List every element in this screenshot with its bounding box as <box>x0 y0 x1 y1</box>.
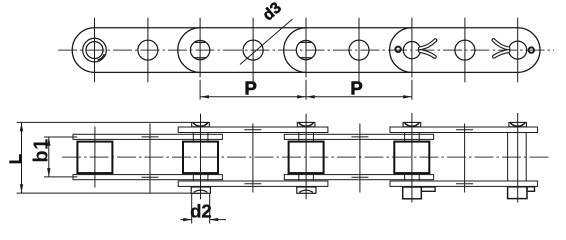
pin joint at pin7 (plan, cotter type) <box>403 113 435 203</box>
roller 1 (plan) <box>77 142 112 174</box>
center mark at position 8 <box>456 124 473 193</box>
pin circle pin9 <box>509 41 527 59</box>
b1 dimension line <box>48 137 50 177</box>
d2 dimension line with outside arrows <box>181 219 227 221</box>
pin joint at pin5 (plan) <box>297 114 316 200</box>
crosshair+extension pin7 <box>411 18 413 100</box>
outer link 1 bottom plate <box>178 181 328 186</box>
L dimension line <box>21 122 23 193</box>
bushing inner circle pin1 <box>86 42 103 59</box>
pin9 body <box>508 133 527 181</box>
pin3 bottom head dome arc <box>194 190 208 192</box>
pin7 bottom head <box>403 187 422 199</box>
pin joint at pin9 (plan, cotter type) <box>508 113 535 203</box>
crosshair pin4 <box>252 18 254 83</box>
crosshair pin9 <box>517 18 519 83</box>
pin5 bottom head <box>297 187 316 193</box>
hole circle pin4 <box>243 40 263 60</box>
roller 4 (plan) <box>394 142 429 174</box>
outer link 2 top plate <box>390 127 538 133</box>
plate end arc at pin7 <box>390 28 412 73</box>
svg-text:P: P <box>245 77 257 98</box>
L top extension line <box>17 121 192 123</box>
pin9 cotter stub <box>527 187 535 192</box>
L bottom extension line <box>17 192 191 194</box>
d2 right extension line <box>209 193 211 223</box>
pin3 body <box>193 133 208 181</box>
cotter pin eye at pin7 <box>395 47 400 52</box>
pin circle pin7 <box>403 42 420 59</box>
pin5 top head <box>297 122 315 126</box>
crosshair pin8 <box>464 18 466 83</box>
crosshair pin6 <box>358 18 360 83</box>
pin7 top head dish arc <box>405 123 420 126</box>
crosshair pin1 <box>94 18 96 83</box>
plate end arc at pin5 <box>284 28 306 73</box>
pin9 center line <box>517 113 519 203</box>
roller 3 (plan) <box>289 142 324 174</box>
roller outer circle pin1 <box>83 38 107 62</box>
cotter pin prongs at pin9 <box>494 40 509 57</box>
inner link 2 top plate <box>284 134 433 139</box>
pin5 top head dish arc <box>299 123 314 126</box>
plate bottom edge <box>95 71 518 73</box>
inner link 2 bottom plate <box>284 175 433 180</box>
crosshair+extension pin3 <box>199 18 201 100</box>
L dimension <box>17 122 192 193</box>
b1 bottom extension line <box>44 176 77 178</box>
crosshair pin2 <box>147 18 149 83</box>
centerline (horizontal dash-dot, bottom view) <box>62 156 550 158</box>
pin5 body <box>299 133 314 181</box>
pin3 bottom head <box>191 187 210 193</box>
svg-text:L: L <box>6 154 25 164</box>
plate left rounded end <box>72 28 94 73</box>
pin9 top head dish arc <box>510 123 525 126</box>
centerline (horizontal dash-dot, top view) <box>58 49 554 51</box>
center mark at position 1 <box>94 127 96 188</box>
pin3 top head <box>192 122 210 126</box>
pin5 bottom head dome arc <box>299 190 313 192</box>
pin9 top head <box>509 122 527 126</box>
P dimension line pin3-pin5 <box>200 95 412 98</box>
pin circle pin5 <box>296 40 315 59</box>
pin7 center line <box>411 113 413 203</box>
plate end arc at pin3 <box>178 28 200 73</box>
center mark at position 2 <box>142 124 159 193</box>
crosshair+extension pin5 <box>305 18 307 100</box>
pin joint at pin3 (plan) <box>191 114 210 200</box>
d2 dimension <box>181 193 227 223</box>
pin5 center line <box>305 114 307 200</box>
inner link 1 top plate <box>73 134 222 139</box>
pin7 cotter stub <box>421 187 435 191</box>
svg-text:b1: b1 <box>31 138 53 162</box>
inner link 1 bottom plate <box>73 175 222 180</box>
cotter pin eye at pin9 <box>529 47 534 52</box>
pin7 top head <box>403 122 421 126</box>
center mark at position 6 <box>351 124 368 193</box>
plate right rounded end <box>518 28 540 73</box>
outer link 1 top plate <box>178 127 328 133</box>
b1 dimension <box>44 137 77 177</box>
pin7 body <box>405 133 420 181</box>
center mark at position 4 <box>244 124 261 193</box>
outer link 2 bottom plate <box>390 181 538 186</box>
svg-text:P: P <box>350 77 362 98</box>
pin3 center line <box>200 114 202 200</box>
snap arc pin1 <box>98 54 105 60</box>
hole circle pin2 <box>138 40 158 60</box>
b1 top extension line <box>44 136 77 138</box>
d3 leader line <box>240 19 293 65</box>
plate top edge <box>95 27 518 29</box>
hole circle pin8 <box>455 40 475 60</box>
pin flats pin3 <box>194 42 206 57</box>
P dimension line pin5-pin7 <box>306 96 412 98</box>
pin flats pin5 <box>300 42 312 57</box>
pin3 top head dish arc <box>193 123 208 126</box>
d2 left extension line <box>191 193 193 223</box>
roller 2 (plan) <box>183 142 218 174</box>
cotter pin prongs at pin7 <box>420 40 435 57</box>
hole circle pin6 <box>349 40 369 60</box>
pin9 bottom head <box>508 187 527 199</box>
svg-text:d2: d2 <box>190 201 212 222</box>
pin circle pin3 <box>190 40 209 59</box>
